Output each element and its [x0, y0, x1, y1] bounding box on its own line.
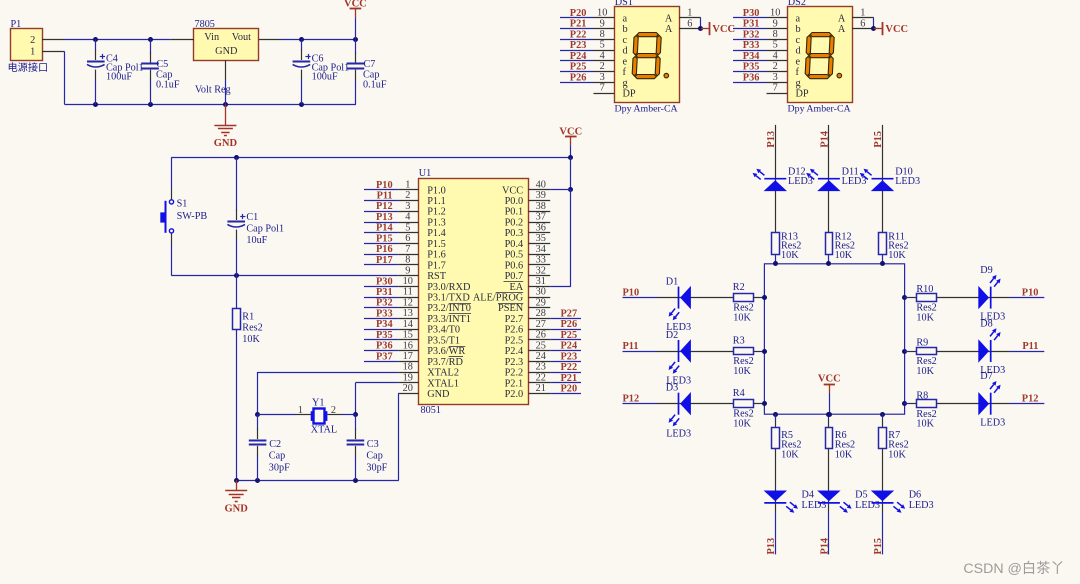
wire: [570, 145, 572, 157]
svg-text:VCC: VCC: [559, 127, 582, 138]
pin 8 (c): [767, 39, 788, 41]
svg-text:d: d: [796, 46, 802, 57]
pin 13: [398, 318, 418, 320]
svg-text:2: 2: [405, 190, 410, 201]
svg-text:10uF: 10uF: [246, 235, 267, 246]
svg-text:8051: 8051: [421, 405, 441, 416]
pin 11: [398, 297, 418, 299]
pin 24: [529, 361, 551, 363]
pin 38: [529, 211, 551, 213]
svg-text:10: 10: [597, 8, 607, 19]
wire: [364, 350, 398, 352]
crystal Y1 XTAL: [314, 409, 325, 424]
pin 1 (A): [679, 17, 701, 19]
svg-text:电源接口: 电源接口: [8, 61, 49, 74]
junction: [880, 261, 885, 266]
pin 37: [529, 222, 551, 224]
wire: [657, 403, 733, 405]
wire: [937, 297, 1011, 299]
wire: [882, 254, 884, 264]
svg-text:1: 1: [30, 47, 35, 58]
svg-text:4: 4: [773, 51, 778, 62]
pin 5 (d): [594, 50, 615, 52]
resistor R13 Res2 10K: [772, 233, 780, 255]
svg-text:8: 8: [600, 29, 605, 40]
svg-text:40: 40: [536, 180, 546, 191]
svg-text:27: 27: [536, 319, 546, 330]
svg-text:35: 35: [536, 233, 546, 244]
svg-text:f: f: [796, 67, 800, 78]
wire: [550, 329, 581, 331]
svg-text:30pF: 30pF: [269, 463, 290, 474]
svg-text:29: 29: [536, 297, 546, 308]
wire: [570, 190, 572, 287]
svg-text:P3.6/WR: P3.6/WR: [427, 346, 465, 357]
pin 1 (A): [852, 17, 874, 19]
svg-text:P36: P36: [376, 341, 393, 352]
led D8 LED3: [978, 328, 1000, 362]
svg-text:39: 39: [536, 190, 546, 201]
svg-text:P2.2: P2.2: [505, 368, 524, 379]
svg-text:e: e: [796, 56, 801, 67]
svg-text:37: 37: [536, 212, 546, 223]
wire: [257, 372, 259, 415]
pin 39: [529, 200, 551, 202]
svg-text:P25: P25: [570, 62, 587, 73]
svg-text:P34: P34: [743, 51, 760, 62]
svg-text:P34: P34: [376, 319, 393, 330]
wire: [364, 329, 398, 331]
pin 33: [529, 264, 551, 266]
wire: [775, 449, 777, 513]
pin 28: [529, 318, 551, 320]
svg-text:P31: P31: [376, 287, 393, 298]
svg-text:VCC: VCC: [502, 185, 523, 196]
svg-text:5: 5: [405, 222, 410, 233]
junction: [871, 26, 876, 31]
junction: [353, 478, 358, 483]
svg-text:7: 7: [405, 244, 410, 255]
wire: [355, 382, 398, 384]
wire: [364, 232, 398, 234]
svg-text:P3.4/T0: P3.4/T0: [427, 325, 460, 336]
svg-text:10K: 10K: [888, 450, 906, 461]
wire: [733, 71, 767, 73]
wire: [882, 125, 884, 232]
svg-text:Cap: Cap: [269, 451, 285, 462]
svg-text:P2.1: P2.1: [505, 378, 524, 389]
pin 3 (g): [594, 82, 615, 84]
svg-text:VCC: VCC: [712, 24, 735, 35]
resistor R5 Res2 10K: [772, 428, 780, 449]
svg-text:Dpy Amber-CA: Dpy Amber-CA: [788, 104, 852, 115]
pin 32: [529, 275, 551, 277]
junction: [568, 187, 573, 192]
pin 5: [398, 232, 418, 234]
svg-text:A: A: [838, 24, 846, 35]
svg-text:P1.2: P1.2: [427, 207, 446, 218]
wire: [258, 414, 295, 416]
pin 10 (a): [767, 17, 788, 19]
svg-text:30pF: 30pF: [366, 463, 387, 474]
pin 16: [398, 350, 418, 352]
svg-text:P0.6: P0.6: [505, 260, 524, 271]
svg-text:P0.2: P0.2: [505, 218, 524, 229]
svg-text:P12: P12: [376, 201, 393, 212]
svg-text:c: c: [796, 35, 801, 46]
resistor R2 Res2 10K: [734, 294, 754, 302]
svg-text:LED3: LED3: [842, 176, 867, 187]
led D4 LED3: [764, 491, 798, 513]
svg-text:Y1: Y1: [312, 397, 324, 408]
svg-text:D6: D6: [909, 489, 921, 500]
svg-text:P2.0: P2.0: [505, 389, 524, 400]
svg-text:Res2: Res2: [888, 439, 908, 450]
svg-text:10K: 10K: [916, 366, 934, 377]
svg-text:R4: R4: [733, 388, 745, 399]
segments digit 8: [637, 33, 658, 37]
svg-text:P3.5/T1: P3.5/T1: [427, 335, 460, 346]
display DS2 Dpy Amber-CA: [788, 7, 853, 103]
svg-text:VCC: VCC: [344, 0, 367, 10]
junction: [902, 349, 907, 354]
svg-text:LED3: LED3: [980, 418, 1005, 429]
junction: [568, 155, 573, 160]
wire: [364, 222, 398, 224]
svg-text:VCC: VCC: [818, 374, 841, 385]
wire: [171, 275, 398, 277]
svg-text:18: 18: [403, 362, 413, 373]
svg-text:10: 10: [770, 8, 780, 19]
wire: [905, 403, 910, 405]
junction: [762, 401, 767, 406]
svg-text:10K: 10K: [242, 334, 260, 345]
svg-text:b: b: [623, 24, 628, 35]
junction: [93, 37, 98, 42]
svg-text:P0.0: P0.0: [505, 196, 524, 207]
junction: [234, 155, 239, 160]
svg-text:P1.7: P1.7: [427, 260, 446, 271]
wire: [623, 403, 658, 405]
wire ring bus: [764, 264, 904, 414]
pin 9: [398, 275, 418, 277]
svg-text:P13: P13: [766, 538, 777, 555]
svg-text:10K: 10K: [733, 419, 751, 430]
svg-text:P10: P10: [623, 287, 640, 298]
wire: [364, 200, 398, 202]
svg-text:DS1: DS1: [615, 0, 633, 8]
wire: [775, 254, 777, 264]
pin GND: [225, 60, 227, 80]
svg-text:LED3: LED3: [666, 428, 691, 439]
ground GND: [225, 104, 227, 125]
wire: [560, 28, 594, 30]
wire: [828, 254, 830, 264]
wire: [623, 351, 658, 353]
svg-text:8: 8: [405, 255, 410, 266]
pin 10 (a): [594, 17, 615, 19]
segment DP: [837, 73, 842, 78]
svg-text:6: 6: [860, 18, 865, 29]
pin P1.2: [42, 39, 64, 41]
svg-text:P1.5: P1.5: [427, 239, 446, 250]
pin 27: [529, 329, 551, 331]
svg-text:10K: 10K: [888, 250, 906, 261]
capacitor C7: [355, 39, 357, 53]
wire: [775, 414, 777, 419]
pin 15: [398, 339, 418, 341]
svg-text:23: 23: [536, 362, 546, 373]
svg-text:P17: P17: [376, 255, 393, 266]
svg-text:XTAL2: XTAL2: [427, 368, 459, 379]
svg-text:LED3: LED3: [788, 176, 813, 187]
junction: [93, 102, 98, 107]
svg-text:P1.4: P1.4: [427, 228, 446, 239]
svg-text:D4: D4: [802, 489, 814, 500]
wire: [64, 39, 171, 41]
pin 6 (A): [679, 28, 701, 30]
capacitor C6: [301, 39, 303, 50]
pin 8: [398, 264, 418, 266]
pin 29: [529, 307, 551, 309]
svg-text:P30: P30: [743, 8, 760, 19]
pin 23: [529, 372, 551, 374]
pin 19: [398, 382, 418, 384]
wire: [754, 351, 761, 353]
svg-text:P31: P31: [743, 19, 760, 30]
wire: [550, 350, 581, 352]
svg-text:P33: P33: [376, 308, 393, 319]
svg-text:9: 9: [773, 18, 778, 29]
svg-text:P36: P36: [743, 72, 760, 83]
pin 12: [398, 307, 418, 309]
wire: [570, 157, 572, 190]
wire: [171, 157, 570, 159]
wire: [937, 403, 1011, 405]
svg-text:P26: P26: [570, 72, 587, 83]
svg-text:P24: P24: [570, 51, 587, 62]
svg-text:31: 31: [536, 276, 546, 287]
svg-text:P14: P14: [820, 538, 831, 555]
pin 2 (f): [594, 71, 615, 73]
wire: [754, 297, 761, 299]
svg-text:32: 32: [536, 265, 546, 276]
regulator U 7805: [194, 29, 259, 61]
svg-text:P3.3/INT1: P3.3/INT1: [427, 314, 471, 325]
svg-text:Cap Pol1: Cap Pol1: [246, 224, 284, 235]
junction: [826, 261, 831, 266]
svg-text:f: f: [623, 67, 627, 78]
led D10 LED3: [860, 169, 894, 191]
svg-text:P1.3: P1.3: [427, 218, 446, 229]
wire: [754, 403, 761, 405]
wire: [397, 393, 400, 395]
svg-text:3: 3: [600, 72, 605, 83]
svg-text:Cap: Cap: [366, 451, 382, 462]
svg-text:P1.1: P1.1: [427, 196, 446, 207]
svg-text:P11: P11: [377, 191, 393, 202]
display DS1 Dpy Amber-CA: [615, 7, 680, 103]
svg-text:g: g: [796, 78, 801, 89]
junction: [234, 478, 239, 483]
svg-text:LED3: LED3: [895, 176, 920, 187]
wire: [364, 254, 398, 256]
wire: [364, 286, 398, 288]
pin 6 (A): [852, 28, 874, 30]
svg-text:LED3: LED3: [909, 500, 934, 511]
capacitor C1: [236, 157, 238, 210]
pin 8 (c): [594, 39, 615, 41]
ground GND: [236, 480, 238, 491]
svg-text:LED3: LED3: [802, 500, 827, 511]
svg-text:2: 2: [600, 61, 605, 72]
svg-text:P30: P30: [376, 276, 393, 287]
svg-text:R1: R1: [242, 312, 254, 323]
wire: [560, 17, 594, 19]
wire: [550, 372, 581, 374]
svg-text:d: d: [623, 46, 629, 57]
svg-text:28: 28: [536, 308, 546, 319]
resistor R11 Res2 10K: [879, 233, 887, 255]
resistor R9 Res2 10K: [917, 348, 937, 355]
junction: [148, 102, 153, 107]
svg-text:P25: P25: [561, 330, 578, 341]
mcu U1 8051: [419, 179, 529, 405]
wire: [828, 125, 830, 232]
svg-text:S1: S1: [177, 199, 188, 210]
wire: [733, 28, 767, 30]
pin 31: [529, 286, 551, 288]
svg-text:P22: P22: [570, 29, 587, 40]
resistor R1: [236, 276, 238, 309]
svg-text:6: 6: [405, 233, 410, 244]
pin 40: [529, 189, 551, 191]
segments digit 8: [810, 33, 831, 37]
led D1 LED3: [669, 286, 691, 320]
junction: [762, 349, 767, 354]
svg-text:C2: C2: [269, 439, 281, 450]
svg-text:3: 3: [405, 201, 410, 212]
svg-text:2: 2: [30, 35, 35, 46]
svg-text:10K: 10K: [733, 313, 751, 324]
resistor R3 Res2 10K: [734, 348, 754, 355]
svg-text:20: 20: [403, 383, 413, 394]
svg-text:ALE/PROG: ALE/PROG: [473, 293, 524, 304]
wire: [364, 264, 398, 266]
svg-text:P20: P20: [561, 384, 578, 395]
svg-text:P2.7: P2.7: [505, 314, 524, 325]
svg-text:14: 14: [403, 319, 413, 330]
wire: [560, 39, 594, 41]
svg-text:P10: P10: [1022, 287, 1039, 298]
pin Vin: [170, 39, 194, 41]
wire: [937, 351, 1011, 353]
svg-text:P1.0: P1.0: [427, 185, 446, 196]
switch S1 SW-PB: [171, 157, 173, 188]
svg-text:P20: P20: [570, 8, 587, 19]
resistor R6 Res2 10K: [826, 428, 833, 449]
pin 10: [398, 286, 418, 288]
pin 34: [529, 254, 551, 256]
pin 9 (b): [767, 28, 788, 30]
wire: [63, 51, 66, 53]
svg-text:19: 19: [403, 373, 413, 384]
svg-text:P11: P11: [623, 341, 639, 352]
pin Y1.1: [295, 414, 311, 416]
wire: [733, 82, 767, 84]
wire: [1010, 403, 1044, 405]
svg-text:P2.4: P2.4: [505, 346, 524, 357]
svg-text:DS2: DS2: [788, 0, 806, 8]
wire: [342, 414, 355, 416]
svg-text:13: 13: [403, 308, 413, 319]
junction: [902, 295, 907, 300]
svg-text:P2.6: P2.6: [505, 325, 524, 336]
svg-text:8: 8: [773, 29, 778, 40]
pin 35: [529, 243, 551, 245]
wire: [775, 125, 777, 232]
svg-text:38: 38: [536, 201, 546, 212]
segment DP: [664, 73, 669, 78]
svg-text:VCC: VCC: [885, 24, 908, 35]
junction: [234, 273, 239, 278]
resistor R8 Res2 10K: [917, 400, 937, 408]
svg-text:1: 1: [860, 8, 865, 19]
wire: [733, 60, 767, 62]
svg-text:16: 16: [403, 340, 413, 351]
svg-text:P15: P15: [873, 538, 884, 555]
svg-text:P35: P35: [743, 62, 760, 73]
wire: [657, 351, 733, 353]
svg-text:P32: P32: [743, 29, 760, 40]
svg-text:4: 4: [600, 51, 605, 62]
wire: [258, 372, 399, 374]
capacitor C3: [355, 415, 357, 430]
capacitor C2: [257, 415, 259, 430]
junction: [880, 412, 885, 417]
svg-text:C1: C1: [246, 212, 258, 223]
svg-text:P22: P22: [561, 362, 578, 373]
wire: [882, 414, 884, 419]
pin 14: [398, 329, 418, 331]
wire: [733, 50, 767, 52]
pin 1: [398, 189, 418, 191]
svg-text:D8: D8: [980, 318, 992, 329]
svg-text:9: 9: [405, 265, 410, 276]
svg-text:P0.1: P0.1: [505, 207, 524, 218]
junction: [353, 412, 358, 417]
svg-text:10K: 10K: [781, 450, 799, 461]
svg-text:P3.7/RD: P3.7/RD: [427, 357, 463, 368]
junction: [223, 102, 228, 107]
svg-text:10K: 10K: [733, 366, 751, 377]
svg-text:Res2: Res2: [835, 439, 855, 450]
svg-text:P10: P10: [376, 180, 393, 191]
junction: [773, 261, 778, 266]
svg-text:A: A: [838, 13, 846, 24]
svg-text:P3.2/INT0: P3.2/INT0: [427, 303, 471, 314]
pin 2: [398, 200, 418, 202]
svg-text:C3: C3: [367, 439, 379, 450]
svg-text:P2.3: P2.3: [505, 357, 524, 368]
svg-text:5: 5: [600, 40, 605, 51]
svg-text:P15: P15: [376, 233, 393, 244]
pin 17: [398, 361, 418, 363]
svg-text:CSDN @白茶丫: CSDN @白茶丫: [963, 561, 1064, 577]
wire: [828, 513, 830, 555]
wire: [828, 414, 830, 419]
svg-text:22: 22: [536, 373, 546, 384]
